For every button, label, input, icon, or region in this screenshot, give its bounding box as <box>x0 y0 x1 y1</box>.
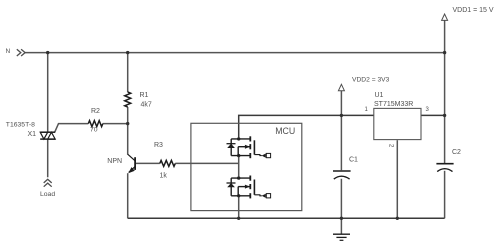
wire MCU bottom to rail <box>238 196 240 219</box>
wire bottom rail <box>128 217 445 219</box>
wire C1 branch <box>340 115 342 170</box>
svg-text:U1: U1 <box>375 92 384 99</box>
node M1 source junction <box>237 154 240 157</box>
transistor Q1 NPN <box>128 154 135 173</box>
wire C1 bottom to rail <box>340 179 342 219</box>
node R1/R2 gate junction <box>126 122 129 125</box>
svg-text:R2: R2 <box>91 108 100 115</box>
svg-text:T1635T-8: T1635T-8 <box>6 122 35 129</box>
svg-text:C1: C1 <box>349 157 358 164</box>
svg-text:X1: X1 <box>28 131 37 138</box>
node VDD2/C1 junction <box>340 114 343 117</box>
body diode D2 <box>227 182 236 184</box>
ground <box>333 234 350 240</box>
node M2 source junction <box>237 194 240 197</box>
svg-text:1: 1 <box>365 107 369 113</box>
capacitor C1 <box>333 171 351 179</box>
gate port arrow M1 <box>262 154 266 158</box>
wire VDD1 vertical <box>444 20 446 52</box>
svg-text:70: 70 <box>90 127 98 134</box>
wire left branch to triac <box>47 53 49 133</box>
svg-text:MCU: MCU <box>275 126 295 136</box>
wire VDD1 down to pin3 node <box>444 53 446 164</box>
wire U1 pin3 to VDD1 line <box>421 114 445 116</box>
resistor R3 <box>160 160 175 166</box>
port Load chevron <box>44 179 52 186</box>
resistor R1 <box>125 92 131 107</box>
wire R1 bottom to gate junction <box>127 107 129 124</box>
svg-text:1k: 1k <box>160 172 168 179</box>
svg-text:NPN: NPN <box>107 158 122 165</box>
svg-text:ST715M33R: ST715M33R <box>374 101 413 108</box>
wire triac bottom to Load <box>47 139 49 177</box>
gate port arrow M2 <box>262 194 266 198</box>
node VDD1 top junction <box>443 51 446 54</box>
wire R1 branch top <box>127 53 129 92</box>
MCU box <box>191 123 302 210</box>
svg-text:R1: R1 <box>140 92 149 99</box>
node M1 drain junction <box>237 137 240 140</box>
wire emitter down <box>127 173 129 218</box>
wire R3 to MCU output node <box>175 162 238 164</box>
power VDD2 arrow <box>338 84 344 90</box>
svg-text:N: N <box>6 48 11 55</box>
power VDD1 arrow <box>442 14 448 20</box>
node M2 drain junction <box>237 176 240 179</box>
wire C2 bottom to rail <box>444 171 446 219</box>
wire base to R3 <box>135 162 160 164</box>
wire MCU top feed to U1 pin1 <box>239 115 374 138</box>
wire R2 to junction <box>103 123 128 125</box>
wire VDD2 branch <box>340 91 342 116</box>
svg-text:VDD1 = 15 V: VDD1 = 15 V <box>453 7 494 14</box>
wire triac gate to R2 <box>55 124 89 133</box>
svg-text:Load: Load <box>40 191 55 198</box>
svg-text:R3: R3 <box>154 142 163 149</box>
MOSFET M2 (bottom, in MCU) <box>227 176 271 199</box>
svg-text:2: 2 <box>388 144 394 148</box>
node C1/ground rail junction <box>340 217 343 220</box>
node N/triac junction <box>46 51 49 54</box>
node MCU/rail junction <box>237 217 240 220</box>
svg-text:3: 3 <box>426 107 430 113</box>
U1 box <box>374 108 421 139</box>
wire MOSFET mid link <box>238 156 240 179</box>
node R1 top junction <box>126 51 129 54</box>
svg-text:VDD2 = 3V3: VDD2 = 3V3 <box>352 77 390 84</box>
wire U1 pin2 to rail <box>396 140 398 218</box>
wire junction to collector <box>127 124 129 155</box>
svg-text:C2: C2 <box>452 149 461 156</box>
node pin3/C2 junction <box>443 114 446 117</box>
port N chevron <box>17 49 25 56</box>
wire top rail N to VDD1 <box>25 52 445 54</box>
triac X1 <box>40 132 55 139</box>
capacitor C2 <box>436 164 453 172</box>
ground stem <box>340 218 342 234</box>
svg-text:4k7: 4k7 <box>141 102 152 109</box>
body diode D1 <box>227 143 236 145</box>
node pin2 rail junction <box>396 217 399 220</box>
resistor R2 <box>88 121 103 127</box>
MOSFET M1 (top, in MCU) <box>227 136 271 158</box>
